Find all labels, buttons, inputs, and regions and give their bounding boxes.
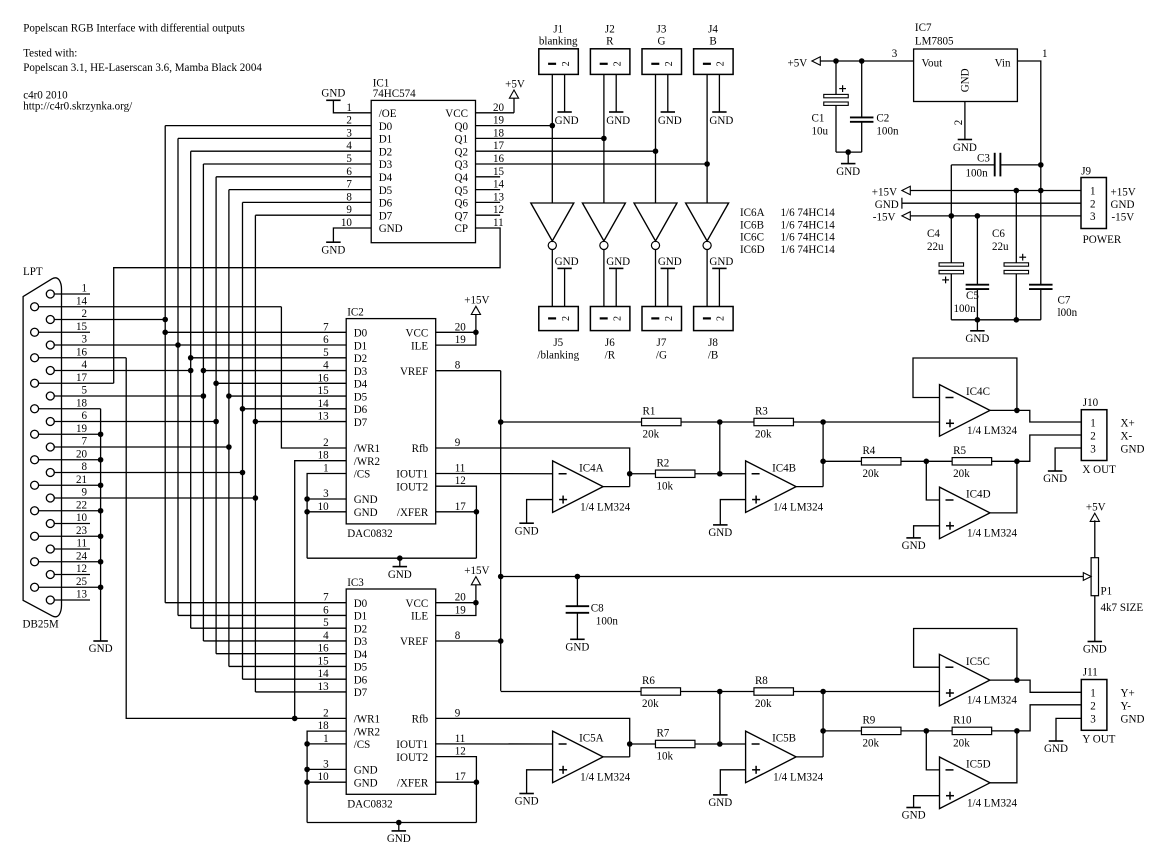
svg-text:20k: 20k: [642, 698, 659, 710]
wire J2 pin 1 to inverter IC6B: [603, 74, 605, 203]
wire IC4C output: [990, 409, 1017, 411]
wire IC7 GND pin 2: [964, 102, 966, 140]
svg-text:LM7805: LM7805: [915, 36, 954, 48]
power +5V at IC1: [505, 78, 525, 112]
wire IC2 VCC/ILE to +15V: [436, 332, 476, 345]
svg-text:GND: GND: [555, 115, 579, 127]
svg-text:D1: D1: [379, 134, 393, 146]
ground J4: [709, 112, 733, 127]
junction D5/LPT: [226, 444, 232, 450]
wire LPT pin 16 to IC3 /WR1: [126, 358, 346, 719]
svg-text:LPT: LPT: [23, 266, 43, 278]
svg-text:15: 15: [318, 385, 330, 397]
svg-text:13: 13: [318, 411, 330, 423]
wire R1R3 junction down to IC4B -: [719, 422, 721, 474]
capacitor C6 22u: [992, 191, 1029, 320]
LPT pin 2: [46, 308, 165, 323]
svg-text:16: 16: [493, 153, 505, 165]
svg-text:D1: D1: [354, 340, 368, 352]
junction D1/LPT: [175, 342, 181, 348]
svg-text:GND: GND: [1044, 743, 1068, 755]
capacitor C8 100n: [566, 577, 619, 640]
svg-text:+15V: +15V: [872, 186, 897, 198]
svg-text:-15V: -15V: [873, 212, 896, 224]
capacitor C7 100n: [1029, 285, 1078, 320]
wire LPT pin 14 to IC2 /WR1: [281, 307, 346, 448]
junction /XFER: [474, 779, 480, 785]
wire IC3 /WR2//CS/GND tie: [307, 731, 346, 822]
wire J4 pin 1 to inverter IC6D: [706, 74, 708, 203]
svg-text:12: 12: [493, 204, 504, 216]
svg-text:Q5: Q5: [454, 185, 468, 197]
ground J10: [1043, 471, 1067, 485]
svg-text:3: 3: [323, 488, 329, 500]
svg-text:Y+: Y+: [1121, 688, 1135, 700]
wire J10 pin 2 link: [1017, 435, 1081, 461]
svg-text:D4: D4: [354, 379, 368, 391]
ground J2: [606, 112, 630, 127]
svg-text:R3: R3: [755, 406, 768, 418]
svg-text:11: 11: [493, 217, 504, 229]
junction: [98, 584, 104, 590]
svg-text:POWER: POWER: [1083, 234, 1122, 246]
svg-text:12: 12: [76, 563, 87, 575]
junction VREF/R6 corner: [501, 691, 641, 693]
svg-text:4k7 SIZE: 4k7 SIZE: [1101, 602, 1144, 614]
svg-text:4: 4: [81, 359, 87, 371]
svg-text:1/4 LM324: 1/4 LM324: [773, 772, 823, 784]
junction Q2 / J3: [653, 148, 659, 154]
svg-text:10: 10: [318, 501, 330, 513]
wire IC1 GND pin 10: [333, 228, 371, 242]
svg-text:J7: J7: [657, 337, 667, 349]
svg-text:GND: GND: [321, 244, 345, 256]
svg-text:2: 2: [612, 316, 623, 321]
svg-text:GND: GND: [1121, 714, 1145, 726]
wire R6-R8: [681, 691, 754, 693]
svg-text:R7: R7: [656, 728, 669, 740]
svg-text:J9: J9: [1081, 166, 1091, 178]
svg-text:VCC: VCC: [445, 108, 468, 120]
LPT pin 10: [46, 512, 90, 527]
svg-text:D6: D6: [379, 198, 393, 210]
svg-text:12: 12: [455, 746, 466, 758]
ground J8: [709, 256, 733, 307]
junction Q1 / J2: [601, 136, 607, 142]
svg-text:17: 17: [76, 372, 88, 384]
svg-text:14: 14: [76, 295, 88, 307]
wire IC1 Q0 to J1: [476, 125, 553, 127]
svg-text:4: 4: [323, 630, 329, 642]
wire Vin pin 1 down to C7: [1017, 61, 1040, 285]
svg-text:22: 22: [76, 499, 87, 511]
junction: [304, 496, 310, 502]
connector J6 /R: [590, 307, 630, 362]
junction: [304, 779, 310, 785]
svg-text:23: 23: [76, 525, 88, 537]
svg-text:Q7: Q7: [454, 210, 468, 222]
svg-text:GND: GND: [1083, 644, 1107, 656]
svg-text:8: 8: [346, 191, 352, 203]
ground J6: [606, 256, 630, 307]
svg-text:R8: R8: [755, 675, 768, 687]
op-amp IC5B 1/4 LM324: [746, 731, 824, 783]
wire data bus D2: [191, 151, 372, 628]
capacitor C5 100n: [954, 216, 990, 320]
svg-text:5: 5: [346, 153, 352, 165]
svg-text:20k: 20k: [755, 698, 772, 710]
svg-text:IC4C: IC4C: [966, 386, 990, 398]
svg-text:C1: C1: [812, 113, 825, 125]
wire R9R10 down to IC5D -: [926, 731, 939, 770]
wire IC1 Q1 to J2: [476, 137, 604, 139]
svg-text:D5: D5: [354, 662, 368, 674]
svg-text:J2: J2: [605, 23, 615, 35]
svg-text:1/4 LM324: 1/4 LM324: [967, 797, 1017, 809]
svg-text:1: 1: [346, 102, 352, 114]
junction D5/IC2: [226, 393, 232, 399]
svg-text:GND: GND: [354, 765, 378, 777]
connector J5 /blanking: [537, 307, 579, 362]
wire data bus D4: [216, 177, 371, 654]
junction: [304, 741, 310, 747]
capacitor C2 100n: [850, 61, 899, 152]
svg-text:J8: J8: [708, 337, 718, 349]
svg-text:13: 13: [318, 681, 330, 693]
svg-text:19: 19: [455, 605, 467, 617]
connector J10 X OUT: [1081, 397, 1144, 476]
junction: [717, 471, 723, 477]
IC IC1 74HC574 body: [341, 78, 505, 243]
wire data bus D1: [178, 138, 371, 615]
svg-text:1/4 LM324: 1/4 LM324: [580, 501, 630, 513]
wire J11 pin 3 to ground: [1056, 718, 1081, 741]
LPT pin 9: [46, 487, 255, 502]
svg-text:5: 5: [81, 385, 87, 397]
wire IC2 /CS-GND tie: [307, 474, 346, 559]
connector J1 blanking: [539, 23, 579, 74]
svg-text:2: 2: [612, 61, 623, 66]
svg-text:20: 20: [493, 102, 505, 114]
svg-text:blanking: blanking: [539, 36, 578, 48]
svg-text:18: 18: [318, 450, 330, 462]
ground IC4B +: [708, 525, 732, 539]
wire IC4D + to ground: [914, 526, 940, 538]
svg-text:GND: GND: [658, 256, 682, 268]
svg-text:21: 21: [76, 474, 87, 486]
op-amp IC5D 1/4 LM324: [940, 757, 1018, 809]
ground LPT: [89, 641, 113, 655]
svg-text:1: 1: [323, 463, 329, 475]
svg-text:X-: X-: [1121, 431, 1133, 443]
wire data bus D5: [229, 190, 371, 667]
svg-text:16: 16: [318, 372, 330, 384]
wire IC2 GND pin 10: [307, 511, 346, 513]
svg-text:18: 18: [493, 127, 505, 139]
svg-text:C2: C2: [876, 113, 889, 125]
svg-text:Q1: Q1: [454, 134, 468, 146]
svg-text:D3: D3: [354, 636, 368, 648]
svg-text:11: 11: [455, 733, 466, 745]
wire R9-R10: [901, 730, 952, 732]
svg-text:2: 2: [716, 316, 727, 321]
ground J1: [555, 112, 579, 127]
op-amp IC5C 1/4 LM324: [939, 654, 1017, 706]
junction IC4A out/R2: [627, 471, 633, 477]
svg-text:GND: GND: [1043, 473, 1067, 485]
wire J1 pin 2 to ground: [564, 74, 566, 112]
svg-text:3: 3: [1090, 211, 1096, 223]
svg-text:18: 18: [318, 720, 330, 732]
svg-text:ILE: ILE: [411, 340, 428, 352]
svg-text:10k: 10k: [656, 751, 673, 763]
LPT pin 21: [31, 474, 101, 489]
svg-text:D4: D4: [354, 649, 368, 661]
svg-text:/XFER: /XFER: [397, 507, 429, 519]
wire IC2 GND pin 3: [307, 498, 346, 500]
wire -15V row: [910, 215, 1081, 217]
svg-text:GND: GND: [89, 643, 113, 655]
svg-text:1: 1: [1090, 186, 1096, 198]
wire VREF to P1 wiper: [501, 576, 1084, 578]
svg-text:D5: D5: [354, 391, 368, 403]
wire D1 to IC2: [178, 344, 346, 346]
wire data bus D7: [255, 215, 371, 692]
svg-text:DAC0832: DAC0832: [347, 799, 392, 811]
svg-text:20k: 20k: [953, 737, 970, 749]
svg-text:J4: J4: [708, 23, 718, 35]
svg-text:8: 8: [455, 360, 461, 372]
svg-text:18: 18: [76, 397, 88, 409]
svg-text:B: B: [709, 36, 716, 48]
junction Q0 / J1: [550, 123, 556, 129]
wire IC4B + to ground: [720, 500, 745, 525]
LPT pin 23: [31, 525, 101, 540]
connector LPT DB25M shell: [23, 266, 62, 631]
junction ground tap: [845, 149, 851, 155]
svg-text:/R: /R: [605, 350, 616, 362]
svg-text:7: 7: [346, 179, 352, 191]
junction C5/rail: [975, 317, 981, 323]
wire IC5C feedback loop: [914, 629, 1017, 681]
LPT pin 8: [46, 461, 242, 476]
LPT pin 17: [31, 372, 114, 387]
ground IC4D +: [902, 538, 926, 552]
junction VREF/C8 row: [498, 574, 504, 580]
ground C1/C2: [836, 152, 860, 178]
svg-text:VCC: VCC: [405, 598, 428, 610]
wire IC4C feedback loop: [913, 358, 1017, 410]
ground J5: [555, 256, 579, 307]
svg-text:+5V: +5V: [788, 58, 808, 70]
svg-text:3: 3: [1090, 714, 1096, 726]
power tag +15V arrow: [872, 186, 911, 198]
svg-text:19: 19: [76, 423, 88, 435]
svg-text:1/4 LM324: 1/4 LM324: [967, 425, 1017, 437]
svg-text:D4: D4: [379, 172, 393, 184]
capacitor C4 22u: [927, 216, 964, 320]
power tag -15V arrow: [873, 212, 911, 224]
svg-text:20: 20: [76, 448, 88, 460]
svg-text:IC6B: IC6B: [740, 219, 764, 231]
svg-text:1/4 LM324: 1/4 LM324: [580, 772, 630, 784]
svg-text:J1: J1: [553, 23, 563, 35]
svg-text:2: 2: [561, 316, 572, 321]
resistor R1 20k: [642, 406, 682, 441]
junction rail GND tap: [397, 555, 403, 561]
svg-text:GND: GND: [321, 87, 345, 99]
svg-text:Y OUT: Y OUT: [1082, 734, 1115, 746]
LPT pin 13: [46, 589, 90, 604]
svg-text:16: 16: [318, 643, 330, 655]
svg-text:13: 13: [493, 191, 505, 203]
op-amp IC5A 1/4 LM324: [553, 731, 631, 783]
junction R8/R9: [820, 689, 826, 695]
wire R1-R3: [681, 421, 754, 423]
junction D0/LPT: [162, 317, 168, 323]
ground J11: [1044, 741, 1068, 755]
junction C2/+5V: [859, 58, 865, 64]
LPT pin 6: [46, 410, 216, 425]
svg-text:VCC: VCC: [405, 328, 428, 340]
LPT pin 25: [31, 576, 101, 591]
resistor R10 20k: [952, 714, 992, 749]
svg-text:100n: 100n: [954, 303, 977, 315]
junction: [98, 533, 104, 539]
svg-text:http://c4r0.skrzynka.org/: http://c4r0.skrzynka.org/: [23, 101, 133, 113]
svg-text:GND: GND: [388, 569, 412, 581]
wire J11 pin 2 link: [1017, 705, 1081, 731]
svg-text:/XFER: /XFER: [397, 777, 429, 789]
svg-text:24: 24: [76, 550, 88, 562]
junction R5/IC4D out: [1014, 459, 1020, 465]
svg-text:1/4 LM324: 1/4 LM324: [967, 528, 1017, 540]
svg-text:1/6 74HC14: 1/6 74HC14: [781, 244, 836, 256]
svg-text:/WR2: /WR2: [354, 726, 380, 738]
svg-text:Q4: Q4: [454, 172, 468, 184]
svg-text:6: 6: [81, 410, 87, 422]
svg-text:IC6A: IC6A: [740, 207, 765, 219]
junction C1/+5V: [833, 58, 839, 64]
junction: [98, 482, 104, 488]
svg-text:Popelscan 3.1, HE-Laserscan 3.: Popelscan 3.1, HE-Laserscan 3.6, Mamba B…: [23, 62, 262, 74]
ground IC5B +: [708, 795, 732, 809]
wire IC1 Q2 to J3: [476, 150, 656, 152]
svg-text:2: 2: [323, 707, 329, 719]
wire IC3 Rfb to IC5A output: [436, 718, 630, 757]
label IC6A-IC6D 1/6 74HC14: [740, 207, 835, 256]
svg-text:20k: 20k: [953, 468, 970, 480]
svg-text:GND: GND: [1121, 444, 1145, 456]
junction D4/LPT: [213, 419, 219, 425]
connector J3 G: [642, 23, 682, 74]
LPT pin 1: [46, 283, 90, 298]
wire J2 pin 2 to ground: [615, 74, 617, 112]
svg-text:GND: GND: [354, 507, 378, 519]
svg-text:D6: D6: [354, 404, 368, 416]
svg-text:IC5D: IC5D: [966, 759, 991, 771]
svg-text:IC3: IC3: [347, 577, 364, 589]
svg-text:G: G: [657, 36, 665, 48]
svg-text:/WR2: /WR2: [354, 456, 380, 468]
wire IC5D output to J11 pin 2: [990, 731, 1017, 783]
svg-text:GND: GND: [565, 642, 589, 654]
svg-text:IC5B: IC5B: [772, 733, 796, 745]
svg-text:D2: D2: [354, 623, 368, 635]
svg-text:6: 6: [323, 334, 329, 346]
svg-text:C7: C7: [1058, 294, 1071, 306]
svg-text:D0: D0: [379, 121, 393, 133]
inverter IC6B 1/6 74HC14: [582, 203, 625, 249]
svg-text:GND: GND: [902, 810, 926, 822]
svg-text:6: 6: [346, 166, 352, 178]
svg-text:17: 17: [455, 501, 467, 513]
wire R7 to IC5B -: [695, 743, 746, 745]
svg-text:DB25M: DB25M: [23, 619, 59, 631]
svg-text:/WR1: /WR1: [354, 443, 380, 455]
svg-text:2: 2: [664, 316, 675, 321]
svg-text:15: 15: [76, 321, 88, 333]
wire data bus D0: [165, 126, 371, 603]
op-amp IC4C 1/4 LM324: [940, 385, 1018, 437]
ground IC2 rail: [388, 558, 412, 581]
junction C5/-15V: [975, 213, 981, 219]
wire IC5B + to ground: [720, 770, 745, 795]
svg-text:R: R: [606, 36, 614, 48]
svg-text:GND: GND: [354, 494, 378, 506]
svg-text:1/6 74HC14: 1/6 74HC14: [781, 219, 836, 231]
svg-text:7: 7: [81, 436, 87, 448]
ground IC4A +: [515, 523, 539, 537]
svg-text:Vin: Vin: [995, 58, 1011, 70]
svg-text:Popelscan RGB Interface with d: Popelscan RGB Interface with differentia…: [23, 23, 245, 35]
svg-text:13: 13: [76, 589, 88, 601]
ground filter rail: [965, 320, 989, 345]
op-amp IC4B 1/4 LM324: [746, 461, 824, 513]
junction VREF/R1: [498, 419, 504, 425]
junction Vin/+15V: [1038, 188, 1044, 194]
svg-text:1/4 LM324: 1/4 LM324: [967, 695, 1017, 707]
junction rail GND tap: [396, 820, 402, 826]
wire IC3 /CS: [307, 743, 346, 745]
svg-text:GND: GND: [708, 797, 732, 809]
inverter IC6A 1/6 74HC14: [531, 203, 574, 249]
svg-text:17: 17: [455, 771, 467, 783]
svg-text:GND: GND: [387, 833, 411, 845]
svg-text:10: 10: [318, 771, 330, 783]
wire IC2 IOUT1 to IC4A -: [436, 473, 553, 475]
power +15V at IC2: [464, 295, 489, 333]
svg-text:100n: 100n: [596, 615, 619, 627]
junction R4R5/IC4D-: [924, 459, 930, 465]
ground IC1 pin 10: [321, 242, 345, 256]
svg-text:GND: GND: [902, 540, 926, 552]
junction /XFER: [474, 509, 480, 515]
ground IC1 /OE: [321, 87, 345, 100]
svg-text:2: 2: [1090, 198, 1096, 210]
svg-text:Y-: Y-: [1121, 701, 1132, 713]
power +15V at IC3: [464, 565, 489, 603]
svg-text:l00n: l00n: [1058, 307, 1078, 319]
wire P1 to +5V: [1094, 520, 1096, 557]
resistor R4 20k: [861, 445, 901, 480]
svg-text:GND: GND: [708, 527, 732, 539]
wire IC1 Q4 stub: [476, 176, 501, 178]
wire filter cap ground rail: [951, 319, 1041, 321]
svg-text:10k: 10k: [656, 480, 673, 492]
op-amp IC4A 1/4 LM324: [553, 461, 631, 513]
svg-text:D0: D0: [354, 328, 368, 340]
